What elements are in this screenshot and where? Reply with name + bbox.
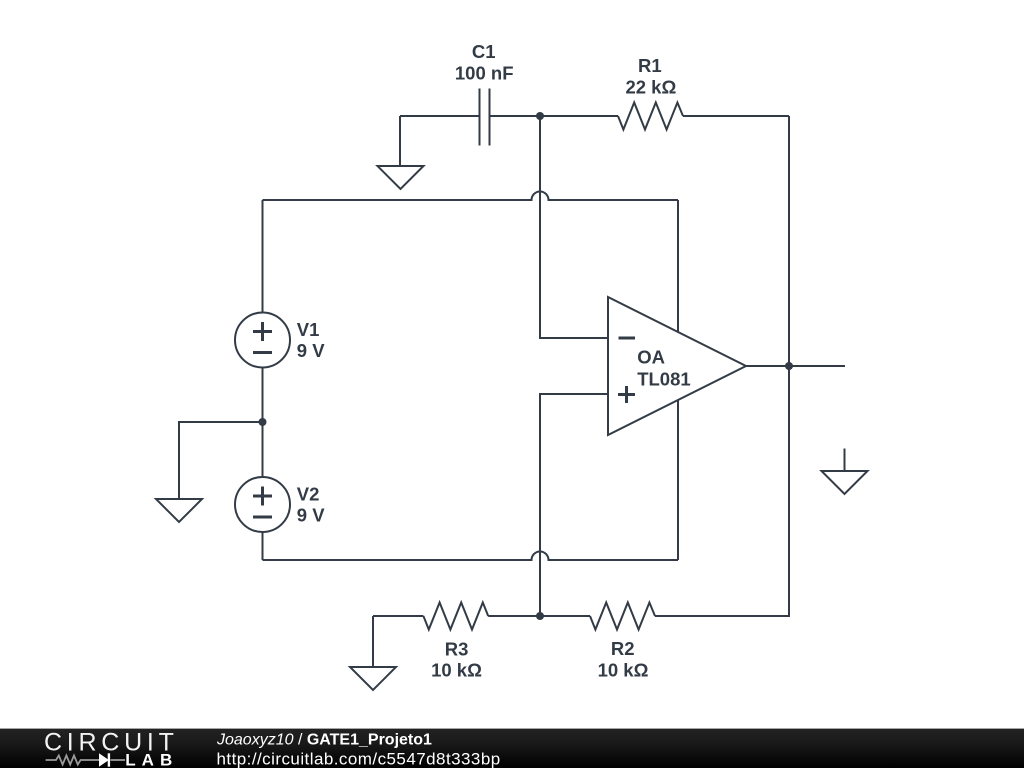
- svg-text:R1: R1: [638, 55, 662, 76]
- svg-text:9 V: 9 V: [297, 340, 325, 361]
- svg-text:R3: R3: [445, 639, 469, 660]
- svg-text:10 kΩ: 10 kΩ: [598, 660, 649, 681]
- svg-text:V1: V1: [297, 319, 320, 340]
- svg-text:22 kΩ: 22 kΩ: [625, 77, 676, 98]
- svg-text:http://circuitlab.com/c5547d8t: http://circuitlab.com/c5547d8t333bp: [217, 750, 501, 768]
- svg-text:C1: C1: [472, 41, 496, 62]
- svg-text:10 kΩ: 10 kΩ: [431, 659, 482, 680]
- svg-text:9 V: 9 V: [297, 505, 325, 526]
- svg-text:OA: OA: [637, 347, 665, 368]
- svg-text:TL081: TL081: [637, 368, 690, 389]
- svg-text:R2: R2: [611, 638, 635, 659]
- svg-text:V2: V2: [297, 484, 320, 505]
- svg-text:100 nF: 100 nF: [455, 63, 514, 84]
- svg-text:Joaoxyz10 / GATE1_Projeto1: Joaoxyz10 / GATE1_Projeto1: [216, 732, 432, 749]
- svg-text:LAB: LAB: [125, 751, 178, 768]
